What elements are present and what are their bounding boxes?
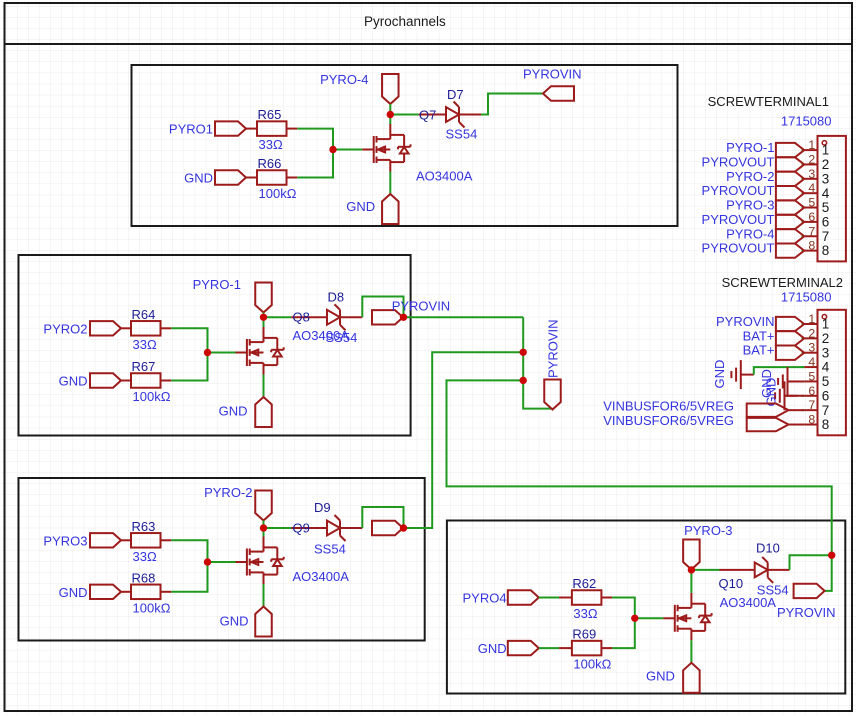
svg-text:8: 8 [822, 243, 830, 258]
svg-text:SS54: SS54 [446, 127, 478, 142]
svg-text:R69: R69 [572, 627, 596, 642]
svg-text:R66: R66 [258, 156, 282, 171]
svg-text:4: 4 [822, 186, 830, 201]
svg-text:5: 5 [822, 200, 830, 215]
svg-text:GND: GND [220, 614, 249, 629]
svg-text:5: 5 [808, 196, 815, 210]
svg-text:BAT+: BAT+ [743, 328, 775, 343]
svg-text:7: 7 [808, 398, 815, 412]
svg-text:3: 3 [822, 345, 830, 360]
svg-text:PYRO-4: PYRO-4 [320, 72, 368, 87]
svg-text:R67: R67 [132, 359, 156, 374]
svg-text:PYRO-3: PYRO-3 [726, 198, 774, 213]
svg-text:33Ω: 33Ω [133, 549, 157, 564]
svg-text:Q7: Q7 [419, 108, 436, 123]
svg-text:BAT+: BAT+ [743, 343, 775, 358]
svg-text:R62: R62 [572, 576, 596, 591]
svg-text:1: 1 [808, 312, 815, 326]
svg-text:6: 6 [808, 384, 815, 398]
svg-text:AO3400A: AO3400A [293, 328, 350, 343]
svg-text:GND: GND [346, 199, 375, 214]
svg-text:100kΩ: 100kΩ [133, 600, 171, 615]
svg-text:1: 1 [808, 138, 815, 152]
svg-text:SCREWTERMINAL2: SCREWTERMINAL2 [722, 275, 843, 290]
svg-text:100kΩ: 100kΩ [259, 186, 297, 201]
svg-text:AO3400A: AO3400A [293, 569, 350, 584]
svg-text:8: 8 [808, 413, 815, 427]
svg-text:PYRO-2: PYRO-2 [204, 485, 252, 500]
svg-text:2: 2 [822, 157, 830, 172]
svg-text:PYRO-4: PYRO-4 [726, 226, 774, 241]
svg-text:R65: R65 [258, 107, 282, 122]
svg-text:PYRO2: PYRO2 [43, 321, 87, 336]
svg-text:7: 7 [808, 224, 815, 238]
svg-text:GND: GND [219, 404, 248, 419]
svg-text:PYROVOUT: PYROVOUT [702, 212, 775, 227]
svg-text:GND: GND [59, 374, 88, 389]
svg-text:Pyrochannels: Pyrochannels [364, 14, 446, 29]
svg-text:GND: GND [59, 585, 88, 600]
svg-text:D7: D7 [447, 87, 464, 102]
svg-text:SS54: SS54 [314, 542, 346, 557]
svg-text:7: 7 [822, 229, 830, 244]
svg-text:PYROVIN: PYROVIN [523, 67, 582, 82]
svg-text:4: 4 [822, 360, 830, 375]
svg-text:PYROVOUT: PYROVOUT [702, 183, 775, 198]
svg-text:GND: GND [646, 669, 675, 684]
svg-text:PYRO-3: PYRO-3 [684, 523, 732, 538]
svg-text:6: 6 [822, 215, 830, 230]
svg-text:3: 3 [808, 341, 815, 355]
svg-text:8: 8 [808, 239, 815, 253]
svg-text:PYROVIN: PYROVIN [716, 314, 775, 329]
svg-text:6: 6 [808, 210, 815, 224]
svg-text:100kΩ: 100kΩ [573, 657, 611, 672]
svg-text:33Ω: 33Ω [573, 606, 597, 621]
svg-text:PYROVOUT: PYROVOUT [702, 241, 775, 256]
svg-text:7: 7 [822, 403, 830, 418]
svg-text:PYROVIN: PYROVIN [392, 299, 451, 314]
svg-text:5: 5 [822, 374, 830, 389]
svg-text:2: 2 [808, 326, 815, 340]
svg-text:D8: D8 [328, 290, 345, 305]
svg-text:1715080: 1715080 [781, 114, 832, 129]
svg-text:PYRO-1: PYRO-1 [726, 140, 774, 155]
svg-text:VINBUSFOR6/5VREG: VINBUSFOR6/5VREG [603, 399, 734, 414]
svg-text:PYROVIN: PYROVIN [777, 605, 836, 620]
svg-text:100kΩ: 100kΩ [133, 389, 171, 404]
svg-text:PYROVOUT: PYROVOUT [702, 154, 775, 169]
svg-text:2: 2 [808, 152, 815, 166]
svg-text:5: 5 [808, 369, 815, 383]
svg-text:33Ω: 33Ω [133, 337, 157, 352]
svg-text:4: 4 [808, 355, 815, 369]
svg-text:3: 3 [808, 167, 815, 181]
svg-text:PYRO1: PYRO1 [169, 122, 213, 137]
svg-text:4: 4 [808, 181, 815, 195]
svg-text:Q8: Q8 [293, 310, 310, 325]
svg-text:AO3400A: AO3400A [416, 169, 473, 184]
svg-text:1715080: 1715080 [781, 290, 832, 305]
svg-text:PYRO4: PYRO4 [463, 591, 507, 606]
svg-text:Q9: Q9 [293, 521, 310, 536]
svg-text:R68: R68 [132, 570, 156, 585]
svg-text:GND: GND [764, 378, 779, 407]
svg-text:AO3400A: AO3400A [720, 595, 777, 610]
svg-text:GND: GND [712, 360, 727, 389]
svg-text:3: 3 [822, 171, 830, 186]
svg-text:1: 1 [822, 317, 830, 332]
svg-text:Q10: Q10 [719, 576, 744, 591]
svg-text:8: 8 [822, 417, 830, 432]
svg-text:D9: D9 [314, 500, 331, 515]
svg-text:PYROVIN: PYROVIN [546, 319, 561, 378]
svg-text:2: 2 [822, 331, 830, 346]
svg-text:VINBUSFOR6/5VREG: VINBUSFOR6/5VREG [603, 413, 734, 428]
svg-text:SCREWTERMINAL1: SCREWTERMINAL1 [708, 94, 829, 109]
svg-text:6: 6 [822, 388, 830, 403]
svg-text:R63: R63 [132, 519, 156, 534]
svg-text:33Ω: 33Ω [259, 137, 283, 152]
svg-text:PYRO3: PYRO3 [43, 533, 87, 548]
svg-text:PYRO-1: PYRO-1 [193, 277, 241, 292]
svg-text:PYRO-2: PYRO-2 [726, 169, 774, 184]
svg-text:D10: D10 [756, 541, 780, 556]
svg-text:GND: GND [184, 171, 213, 186]
svg-text:GND: GND [478, 641, 507, 656]
svg-text:1: 1 [822, 143, 830, 158]
svg-text:R64: R64 [132, 307, 156, 322]
